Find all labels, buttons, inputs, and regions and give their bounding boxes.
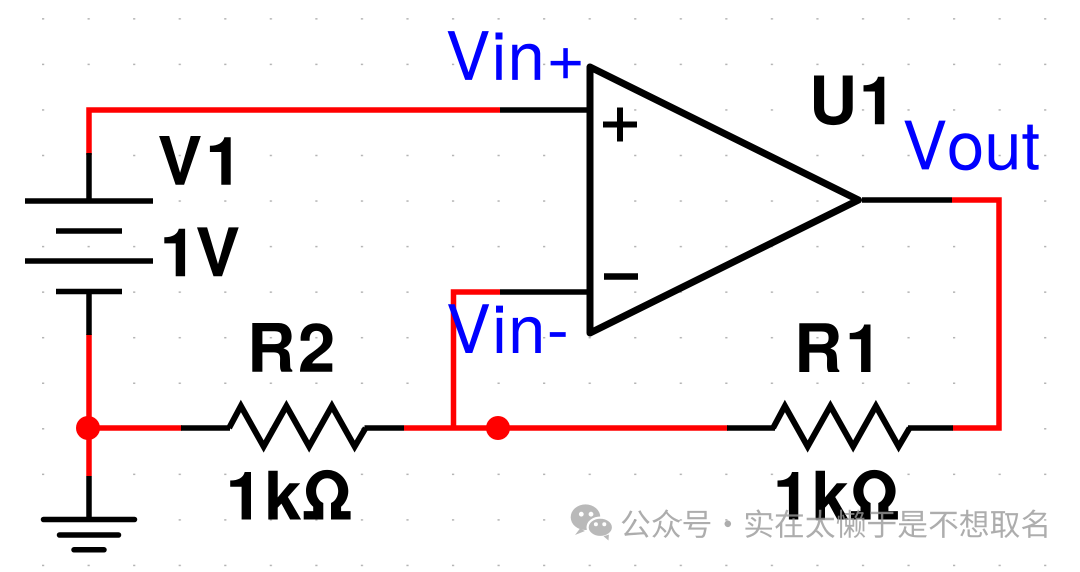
- wire net Vin- : riser from bottom wire to inverting input: [454, 292, 501, 428]
- battery V1 bottom pin: [86, 292, 92, 336]
- watermark wechat icon big bubble tail: [575, 529, 585, 536]
- label U1: [814, 76, 884, 126]
- watermark wechat icon big bubble: [571, 504, 601, 530]
- wire middle : R2 right lead to R1 left lead: [404, 425, 728, 431]
- battery V1 plate 3 long: [25, 258, 153, 264]
- op-amp minus input marker: [604, 273, 638, 280]
- op-amp plus input marker: [603, 108, 637, 142]
- net label Vout: [904, 121, 1038, 171]
- wire bottom : junction to R2 left lead: [86, 425, 182, 431]
- watermark icon eyes: [579, 512, 606, 526]
- ground bar 2: [60, 532, 119, 538]
- watermark text: [622, 509, 1047, 538]
- resistor R1 zigzag body: [773, 406, 910, 447]
- op-amp U1 triangle body: [590, 67, 859, 333]
- resistor R1 left lead: [727, 425, 775, 431]
- label V1: [159, 136, 231, 185]
- resistor R2 right lead: [365, 425, 405, 431]
- ground bar 1: [44, 517, 135, 523]
- op-amp U1 output pin: [862, 197, 952, 203]
- junction node at R2/R1/Vin- riser: [486, 416, 510, 440]
- ground pin: [86, 476, 92, 520]
- op-amp U1 non-inverting input pin: [500, 107, 590, 113]
- battery V1 plate 4 short: [56, 289, 122, 295]
- resistor R1 right lead: [908, 425, 953, 431]
- junction node at battery/ground/R2: [76, 416, 100, 440]
- ground bar 3: [74, 547, 104, 553]
- label R1: [799, 323, 870, 372]
- value 1kOhm of R1: [778, 470, 898, 520]
- value 1V: [164, 227, 238, 276]
- resistor R2 zigzag body: [229, 406, 366, 447]
- op-amp U1 inverting input pin: [500, 289, 590, 295]
- value 1kOhm of R2: [230, 470, 350, 520]
- net label Vin+: [448, 31, 581, 80]
- label R2: [252, 323, 332, 372]
- wire net Vout : output pin right and down the right rail: [952, 200, 999, 428]
- watermark wechat icon small bubble tail: [604, 535, 609, 541]
- resistor R2 left lead: [181, 425, 230, 431]
- battery V1 plate 1 long: [25, 198, 153, 204]
- battery V1 plate 2 short: [56, 228, 122, 234]
- wire net Vin+ : battery top to non-inverting input: [89, 110, 500, 155]
- battery V1 top pin: [86, 153, 92, 201]
- net label Vin-: [448, 304, 566, 353]
- wire left rail : battery bottom down to ground junction: [86, 334, 92, 476]
- watermark wechat icon small bubble: [588, 518, 613, 537]
